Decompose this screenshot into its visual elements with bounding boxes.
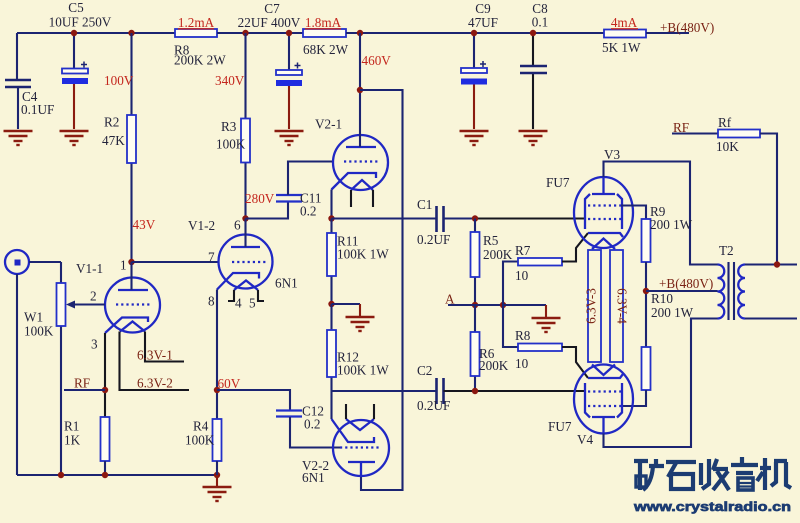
resistor 68K 2W <box>303 15 349 57</box>
ground at bottom rail <box>203 475 232 501</box>
node V2-1 cathode junction <box>328 215 334 221</box>
node R6 bottom junction <box>472 388 478 394</box>
V2-2 heater pins <box>346 404 374 419</box>
resistor Rf 10K feedback <box>716 115 760 154</box>
svg-text:100K 1W: 100K 1W <box>337 247 389 262</box>
wire V3 plate to T2 primary top <box>604 162 718 265</box>
V4 control grid <box>588 390 621 392</box>
T2 core <box>729 262 735 320</box>
node RF junction <box>102 387 108 393</box>
wire R12 bottom to C2 <box>332 390 437 392</box>
wire V2-1 cathode down <box>330 190 332 219</box>
svg-text:T2: T2 <box>719 243 734 258</box>
svg-text:V1-1: V1-1 <box>76 261 103 276</box>
svg-text:0.2: 0.2 <box>304 417 320 432</box>
wire Rf to secondary top <box>760 134 777 265</box>
svg-text:R8: R8 <box>515 328 531 343</box>
V4 plate <box>592 417 615 434</box>
V2-1 grid <box>344 160 379 162</box>
capacitor C8 0.1 <box>520 1 548 129</box>
svg-text:10UF 250V: 10UF 250V <box>49 15 112 30</box>
resistor R1 1K <box>64 417 110 475</box>
V1-2 grid <box>232 261 267 263</box>
wire V1-2 cathode to 60V node <box>216 290 218 420</box>
svg-text:280V: 280V <box>245 191 275 206</box>
svg-text:10: 10 <box>515 356 529 371</box>
svg-text:100K: 100K <box>216 137 246 152</box>
ground below C8 <box>519 131 548 145</box>
wire cathode out to C1 <box>332 217 437 219</box>
capacitor C5 10UF 250V electrolytic <box>49 0 112 129</box>
net 340V <box>215 73 245 88</box>
svg-text:6: 6 <box>234 218 241 233</box>
tube V4 FU7 <box>548 365 633 448</box>
svg-text:6.3V-2: 6.3V-2 <box>137 376 173 391</box>
svg-text:68K 2W: 68K 2W <box>303 42 349 57</box>
potentiometer W1 100K <box>24 262 66 475</box>
svg-text:0.1UF: 0.1UF <box>21 102 54 117</box>
capacitor C2 0.2UF <box>417 363 450 413</box>
svg-text:200K 2W: 200K 2W <box>174 53 226 68</box>
svg-text:4mA: 4mA <box>611 15 638 30</box>
V2-1 plate <box>346 146 376 148</box>
svg-text:60V: 60V <box>218 376 241 391</box>
T2 primary winding <box>718 265 725 319</box>
V3 plate <box>592 177 615 194</box>
resistor R6 200K <box>471 305 509 391</box>
svg-text:V2-1: V2-1 <box>315 117 342 132</box>
V1-1 grid <box>116 303 151 305</box>
net 100V <box>104 73 134 88</box>
node V1-1 plate junction <box>128 259 134 265</box>
V1-1 heater <box>120 322 145 332</box>
wire V1-1 plate to V1-2 grid <box>132 261 219 263</box>
resistor R7 10 <box>503 233 588 305</box>
svg-text:7: 7 <box>208 250 215 265</box>
V3 screen grid <box>588 204 621 206</box>
node +B junction at T2 center tap <box>643 276 714 294</box>
net RF top stub <box>672 120 718 135</box>
svg-text:8: 8 <box>208 294 215 309</box>
svg-text:47UF: 47UF <box>468 15 498 30</box>
svg-text:R5: R5 <box>483 233 499 248</box>
wire V4 plate to T2 primary bottom <box>604 319 718 448</box>
wire 100V bus segment <box>17 32 175 34</box>
T2 secondary winding <box>738 265 745 319</box>
heater box 6.3V-4 <box>610 250 630 362</box>
V1-1 heater pin wires 6.3V-1 6.3V-2 <box>120 332 190 391</box>
svg-text:+B(480V): +B(480V) <box>660 20 714 35</box>
svg-text:0.1: 0.1 <box>532 15 548 30</box>
svg-text:200K: 200K <box>483 247 513 262</box>
wire 340V bus segment <box>217 32 303 34</box>
svg-text:200 1W: 200 1W <box>651 305 694 320</box>
node R11 R12 junction <box>328 301 334 307</box>
svg-text:1K: 1K <box>64 433 81 448</box>
svg-text:C7: C7 <box>264 1 280 16</box>
resistor R11 100K 1W <box>327 219 389 305</box>
node 60V junction <box>214 376 241 393</box>
svg-text:100K 1W: 100K 1W <box>337 363 389 378</box>
svg-text:FU7: FU7 <box>546 175 570 190</box>
svg-text:200K: 200K <box>479 358 509 373</box>
tube V2-1 <box>315 117 388 208</box>
watermark logo crystalradio <box>634 457 791 490</box>
V1-2 heater <box>234 281 258 291</box>
ground below C9 <box>460 131 489 145</box>
wire V1-1 cathode down <box>104 333 106 417</box>
svg-text:6.3V-1: 6.3V-1 <box>137 348 173 363</box>
svg-text:5K 1W: 5K 1W <box>602 40 641 55</box>
capacitor C4 0.1UF <box>5 33 54 129</box>
net 460V <box>362 53 392 68</box>
V3 control grid <box>588 218 621 220</box>
resistor R8 10 cathode <box>503 305 588 378</box>
svg-text:4: 4 <box>235 296 242 311</box>
svg-text:6N1: 6N1 <box>302 470 325 485</box>
tube V1-2 6N1 <box>188 218 298 311</box>
V2-1 heater pins <box>351 190 373 207</box>
svg-text:A: A <box>445 292 455 307</box>
svg-text:R10: R10 <box>651 291 673 306</box>
wire A node to cathode ground bus <box>475 304 503 306</box>
input jack <box>5 250 61 475</box>
svg-text:5: 5 <box>249 296 256 311</box>
ground between R11 R12 <box>332 304 375 331</box>
V4 heater <box>592 365 615 376</box>
capacitor C11 0.2 <box>246 162 335 219</box>
V1-1 cathode <box>105 318 148 334</box>
resistor R5 200K <box>471 219 513 306</box>
node dots on bus <box>71 30 536 36</box>
net 280V <box>245 191 275 206</box>
V1-2 plate <box>231 246 260 248</box>
V2-2 plate <box>348 462 375 476</box>
V1-1 plate <box>118 289 148 291</box>
svg-text:0.2UF: 0.2UF <box>417 232 450 247</box>
svg-text:C1: C1 <box>417 197 432 212</box>
svg-text:R2: R2 <box>104 115 119 130</box>
resistor R10 200 1W <box>642 291 694 390</box>
wire 460V to V2-1 plate <box>359 33 361 135</box>
wire V3 screen to R9 <box>621 206 646 220</box>
svg-text:100V: 100V <box>104 73 134 88</box>
resistor 5K 1W <box>602 15 646 55</box>
svg-text:6.3V-3: 6.3V-3 <box>584 288 599 324</box>
svg-text:340V: 340V <box>215 73 245 88</box>
svg-text:RF: RF <box>74 376 90 391</box>
V1-2 cathode <box>217 273 259 290</box>
svg-text:+B(480V): +B(480V) <box>659 276 713 291</box>
svg-text:R1: R1 <box>64 419 79 434</box>
svg-text:V1-2: V1-2 <box>188 218 215 233</box>
V2-1 cathode <box>332 173 377 190</box>
svg-text:C2: C2 <box>417 363 432 378</box>
svg-text:100K: 100K <box>24 324 54 339</box>
V2-2 cathode <box>332 419 375 442</box>
V3 cathode <box>588 233 623 237</box>
svg-text:Rf: Rf <box>718 115 732 130</box>
svg-text:0.2UF: 0.2UF <box>417 398 450 413</box>
tube V1-1 <box>76 258 160 352</box>
svg-text:47K: 47K <box>102 133 125 148</box>
svg-text:1.8mA: 1.8mA <box>305 15 342 30</box>
svg-text:6.3V-4: 6.3V-4 <box>615 288 630 324</box>
wire center tap <box>646 290 718 292</box>
V4 beam plates <box>585 383 622 418</box>
svg-text:1: 1 <box>120 258 127 273</box>
net 43V <box>133 217 156 232</box>
svg-text:C5: C5 <box>68 0 84 15</box>
svg-text:43V: 43V <box>133 217 156 232</box>
svg-text:1.2mA: 1.2mA <box>178 15 215 30</box>
resistor R8 200K 2W <box>174 15 226 68</box>
svg-text:R3: R3 <box>221 119 237 134</box>
svg-text:www.crystalradio.cn: www.crystalradio.cn <box>633 499 791 514</box>
heater box 6.3V-3 <box>584 250 602 362</box>
wire 460V to V2-2 plate long drop <box>360 90 403 490</box>
wire +B input segment <box>646 32 689 34</box>
svg-text:V3: V3 <box>604 147 621 162</box>
ground at cathode node <box>503 305 561 332</box>
resistor R2 47K <box>102 33 136 262</box>
node 460V drop junction <box>357 87 363 93</box>
capacitor C12 0.2 <box>217 390 340 448</box>
svg-text:FU7: FU7 <box>548 419 572 434</box>
capacitor C7 22UF 400V electrolytic <box>238 1 302 129</box>
wire secondary top output <box>745 263 797 265</box>
svg-text:R7: R7 <box>515 243 531 258</box>
capacitor C1 0.2UF <box>417 197 450 247</box>
V2-2 grid <box>340 446 381 448</box>
node R5 top junction <box>472 215 478 221</box>
svg-text:0.2: 0.2 <box>300 204 316 219</box>
node rail junctions <box>58 472 220 478</box>
transformer T2 <box>718 243 746 320</box>
resistor R3 100K <box>216 33 250 219</box>
V2-2 heater <box>346 419 374 430</box>
net RF stub <box>64 376 105 391</box>
svg-text:10: 10 <box>515 268 529 283</box>
V3 beam plates <box>585 194 622 229</box>
svg-text:10K: 10K <box>716 139 739 154</box>
svg-text:100K: 100K <box>185 433 215 448</box>
node R7 R8 junction <box>500 302 506 308</box>
tube V2-2 6N1 <box>302 404 389 485</box>
wire 460V bus segment <box>346 32 604 34</box>
svg-text:C9: C9 <box>475 1 491 16</box>
wire C2 to V4 grid <box>444 390 587 392</box>
V4 cathode <box>588 374 623 378</box>
svg-text:460V: 460V <box>362 53 392 68</box>
svg-text:6N1: 6N1 <box>275 276 298 291</box>
V3 heater <box>592 239 615 250</box>
node A junction <box>445 292 478 309</box>
ground below C5 <box>60 131 89 145</box>
resistor R12 100K 1W <box>327 304 389 419</box>
wire R10 to V4 screen <box>621 390 646 406</box>
ground below C7 <box>275 131 304 145</box>
V4 screen grid <box>588 405 621 407</box>
wire V1-1 grid to W1 wiper arrow <box>66 301 105 309</box>
wire secondary bottom output <box>745 317 797 319</box>
node V1-2 plate junction pin 6 <box>234 215 249 232</box>
net +B(480V) <box>660 20 714 35</box>
node feedback tap <box>774 261 780 267</box>
svg-text:22UF 400V: 22UF 400V <box>238 15 301 30</box>
V2-1 heater <box>351 180 373 190</box>
V1-2 heater pins 4 5 <box>228 290 264 301</box>
resistor R4 100K <box>185 419 222 476</box>
svg-text:W1: W1 <box>24 310 43 325</box>
svg-text:R4: R4 <box>193 419 209 434</box>
tube V3 FU7 <box>546 147 633 249</box>
resistor R9 200 1W <box>642 204 693 347</box>
svg-text:3: 3 <box>91 337 98 352</box>
svg-text:200 1W: 200 1W <box>650 217 693 232</box>
ground below C4 <box>4 131 33 145</box>
capacitor C9 47UF electrolytic <box>461 1 498 129</box>
wire ground rail bottom left <box>17 474 217 476</box>
svg-text:2: 2 <box>90 289 97 304</box>
svg-text:V4: V4 <box>577 432 594 447</box>
wire C1 to V3 grid <box>444 217 587 219</box>
